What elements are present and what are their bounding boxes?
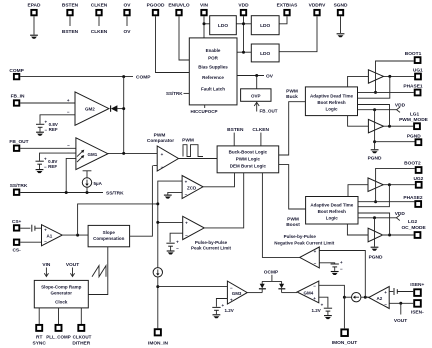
svg-text:BSTEN: BSTEN <box>62 29 79 35</box>
svg-text:RT: RT <box>36 335 42 341</box>
node IMON_OUT <box>343 296 352 329</box>
driver U6 (UG2) <box>348 178 415 207</box>
node VOUT <box>394 302 407 324</box>
svg-text:Adaptive Dead Time: Adaptive Dead Time <box>310 203 353 208</box>
svg-text:SS/TRK: SS/TRK <box>166 91 183 96</box>
svg-text:DEM Burst Logic: DEM Burst Logic <box>230 163 267 168</box>
svg-text:+: + <box>44 156 47 161</box>
pin ISEN- <box>411 300 424 315</box>
pin EN/UVLO <box>168 3 190 60</box>
svg-text:HICCUPOCP: HICCUPOCP <box>190 109 217 114</box>
svg-text:OV: OV <box>124 29 132 35</box>
svg-text:Buck-Boost Logic: Buck-Boost Logic <box>229 149 268 154</box>
svg-text:−: − <box>185 192 188 197</box>
wire driver2 supply + ground PGND <box>369 218 383 261</box>
node VIN arrow <box>42 262 51 277</box>
node HICCUPOCP <box>190 105 217 114</box>
comparator ZCD <box>158 173 235 204</box>
svg-text:COMP: COMP <box>136 75 151 81</box>
svg-text:Comparator: Comparator <box>147 138 174 144</box>
pin LG2/OC_MODE <box>401 219 426 238</box>
Slope Compensation block <box>88 166 152 247</box>
node SS/TRK at enable block <box>166 91 189 96</box>
pin LG1/PWM_MODE <box>399 111 429 129</box>
svg-text:+: + <box>321 303 324 308</box>
driver U4 (UG1) <box>348 70 415 98</box>
pin UG1 <box>413 67 423 79</box>
svg-text:Pulse-by-Pulse: Pulse-by-Pulse <box>284 234 317 239</box>
svg-text:PLL_COMP: PLL_COMP <box>46 335 71 340</box>
svg-text:Peak Current Limit: Peak Current Limit <box>191 246 232 251</box>
svg-text:Adaptive Dead Time: Adaptive Dead Time <box>310 94 353 99</box>
diode D1 (GM2 output) <box>111 105 126 112</box>
LDO U2 <box>251 16 279 35</box>
svg-text:Reference: Reference <box>202 75 224 80</box>
svg-text:CLKEN: CLKEN <box>252 127 269 133</box>
svg-text:LG1: LG1 <box>410 111 420 117</box>
pin EXTBIAS <box>277 3 299 24</box>
svg-text:DITHER: DITHER <box>72 341 90 347</box>
svg-text:IMON_OUT: IMON_OUT <box>332 340 357 346</box>
svg-text:+: + <box>67 98 70 103</box>
current source (IMON_OUT) <box>352 293 369 302</box>
wire driver1 supply <box>374 110 376 142</box>
svg-text:OVP: OVP <box>251 93 261 98</box>
svg-text:COMP: COMP <box>9 68 24 74</box>
pin RT/SYNC <box>33 308 47 347</box>
svg-text:CS+: CS+ <box>12 219 22 225</box>
pin PHASE1 <box>403 84 423 96</box>
Adaptive Dead Time block (buck) <box>305 87 357 116</box>
svg-text:Enable: Enable <box>206 48 221 53</box>
wire BOOT1 <box>374 61 414 94</box>
pin CLKOUT/DITHER <box>72 308 91 347</box>
svg-text:−: − <box>67 109 70 114</box>
svg-text:−: − <box>67 143 70 148</box>
svg-text:Boot Refresh: Boot Refresh <box>317 100 346 105</box>
op-amp A2 <box>369 287 414 309</box>
svg-text:1.2V: 1.2V <box>225 308 234 313</box>
pin OV <box>124 3 132 35</box>
transistor clamp Q2 <box>278 281 285 292</box>
svg-text:Logic: Logic <box>326 215 338 220</box>
wire A2 output <box>365 296 368 298</box>
svg-text:+: + <box>185 180 188 185</box>
svg-text:+: + <box>161 152 164 157</box>
pin ISEN+ <box>410 282 424 296</box>
Slope-Comp Ramp Generator block <box>34 247 108 308</box>
svg-text:+: + <box>44 119 47 124</box>
svg-text:−: − <box>314 261 317 266</box>
svg-text:GM4: GM4 <box>304 290 314 295</box>
svg-text:VDD: VDD <box>238 3 249 9</box>
Buck-Boost Logic block <box>217 146 279 173</box>
svg-text:VIN: VIN <box>42 262 51 268</box>
Enable/POR block <box>189 38 237 105</box>
svg-text:Fault Latch: Fault Latch <box>201 87 225 92</box>
LDO U3 <box>251 44 279 62</box>
svg-text:−: − <box>44 239 47 244</box>
svg-text:5µA: 5µA <box>94 181 103 186</box>
svg-text:Buck: Buck <box>286 94 298 100</box>
svg-text:SGND: SGND <box>334 3 348 9</box>
svg-text:OC_MODE: OC_MODE <box>401 225 426 231</box>
svg-text:Slope-Comp Ramp: Slope-Comp Ramp <box>41 285 82 290</box>
pin PHASE2 <box>403 195 423 207</box>
pin CS- <box>12 240 41 254</box>
svg-text:VIN: VIN <box>200 3 209 9</box>
pin BSTEN <box>62 3 79 35</box>
sawtooth ramp symbol <box>92 266 106 277</box>
svg-text:Slope: Slope <box>103 230 116 235</box>
svg-text:GM3: GM3 <box>232 291 242 296</box>
svg-text:BSTEN: BSTEN <box>62 3 79 9</box>
svg-text:CLKEN: CLKEN <box>91 3 108 9</box>
svg-text:LDO: LDO <box>218 23 228 29</box>
svg-text:SYNC: SYNC <box>33 341 47 347</box>
wire A1 output to current node <box>78 204 158 235</box>
svg-text:GM1: GM1 <box>88 152 98 157</box>
wire COMP vertical <box>123 77 125 154</box>
svg-text:PHASE2: PHASE2 <box>403 195 423 201</box>
svg-text:Negative Peak Current Limit: Negative Peak Current Limit <box>274 241 335 246</box>
svg-text:+: + <box>314 249 317 254</box>
svg-text:+: + <box>176 239 179 244</box>
svg-text:+: + <box>384 290 387 295</box>
svg-text:VDD: VDD <box>395 211 406 217</box>
Adaptive Dead Time block (boost) <box>306 197 358 225</box>
svg-text:−: − <box>161 165 164 170</box>
svg-text:REF: REF <box>48 164 57 169</box>
capacitor (ISEN+ input) <box>394 288 397 295</box>
pin SS/TRK <box>10 183 124 197</box>
comparator PWM <box>108 132 217 171</box>
svg-text:OV: OV <box>266 74 274 80</box>
svg-text:+: + <box>230 298 233 303</box>
node PGND (ch1) <box>368 140 415 161</box>
svg-text:−: − <box>176 246 179 251</box>
wire PWM Boost <box>279 165 306 228</box>
pin SGND <box>334 3 348 38</box>
reference 0.8V REF (GM1) <box>36 156 58 173</box>
svg-text:PWM_MODE: PWM_MODE <box>399 117 429 123</box>
op-amp GM1 <box>40 138 108 193</box>
svg-text:+: + <box>313 296 316 301</box>
op-amp GM3 <box>158 281 262 307</box>
svg-text:−: − <box>44 164 47 169</box>
svg-text:PWM: PWM <box>154 132 166 138</box>
svg-text:REF: REF <box>49 127 58 132</box>
current source 5uA <box>82 171 102 193</box>
svg-text:EN/UVLO: EN/UVLO <box>168 3 190 9</box>
svg-text:POR: POR <box>208 56 219 61</box>
svg-text:ZCD: ZCD <box>187 185 197 190</box>
driver U7 (LG2) <box>347 213 413 242</box>
svg-text:−: − <box>185 233 188 238</box>
svg-text:FB_OUT: FB_OUT <box>9 139 28 145</box>
op-amp A1 <box>42 225 89 246</box>
pin UG2 <box>413 176 423 188</box>
pin PGOOD <box>147 3 190 73</box>
comparator Pulse-by-Pulse Negative Peak Current Limit <box>262 173 365 297</box>
reference 0.8V REF (GM2) <box>36 119 58 135</box>
svg-text:Generator: Generator <box>51 290 73 295</box>
wire PWM Buck <box>279 88 306 155</box>
svg-text:Pulse-by-Pulse: Pulse-by-Pulse <box>195 240 228 245</box>
reference 1.2V (GM4) <box>312 303 333 320</box>
svg-text:PWM Logic: PWM Logic <box>236 156 261 161</box>
wire PHASE1 <box>358 91 414 93</box>
node CLKEN <box>252 127 269 146</box>
svg-text:PGND: PGND <box>368 155 382 161</box>
reference battery (peak limit) <box>166 239 179 254</box>
pin BOOT1 <box>405 51 422 63</box>
node VDD (ch2) <box>358 211 405 221</box>
pin CLKEN <box>91 3 108 35</box>
pin VDD <box>236 3 251 54</box>
node VDD (ch1) <box>358 103 406 113</box>
svg-text:−: − <box>340 266 343 271</box>
svg-text:VOUT: VOUT <box>66 262 79 268</box>
node BSTEN <box>227 127 244 146</box>
driver U5 (LG1) <box>348 105 414 133</box>
current source (IMON_IN) <box>153 268 162 329</box>
LDO U1 <box>210 16 237 35</box>
pin PGND <box>407 133 421 145</box>
svg-text:1.2V: 1.2V <box>312 308 321 313</box>
pin COMP <box>9 68 151 81</box>
transistor clamp Q1 <box>259 281 266 292</box>
svg-text:FB_OUT: FB_OUT <box>260 109 278 114</box>
node OCMP clamp <box>262 269 281 281</box>
svg-text:IMON_IN: IMON_IN <box>148 340 169 346</box>
svg-text:LDO: LDO <box>260 51 270 57</box>
svg-text:PGOOD: PGOOD <box>147 3 165 9</box>
reference battery (neg peak limit) <box>331 260 343 275</box>
svg-text:PGND: PGND <box>369 254 383 260</box>
pin FB_IN <box>11 94 75 106</box>
node OV <box>237 74 274 89</box>
svg-text:PWM: PWM <box>286 88 298 94</box>
svg-text:CS-: CS- <box>12 247 21 253</box>
pin IMON_OUT <box>332 329 357 346</box>
svg-text:VOUT: VOUT <box>394 318 407 324</box>
svg-text:SS/TRK: SS/TRK <box>10 183 28 189</box>
wire BOOT2 <box>374 168 415 203</box>
svg-text:−: − <box>230 285 233 290</box>
svg-text:SS/TRK: SS/TRK <box>106 191 124 197</box>
svg-text:LG2: LG2 <box>408 219 418 225</box>
svg-text:−: − <box>313 284 316 289</box>
svg-text:ISEN+: ISEN+ <box>410 282 424 288</box>
svg-text:FB_IN: FB_IN <box>11 94 25 100</box>
node VOUT arrow <box>66 262 79 277</box>
svg-text:PWM: PWM <box>287 216 299 222</box>
pin EPAD <box>28 3 42 39</box>
svg-text:EPAD: EPAD <box>28 3 42 9</box>
svg-text:A1: A1 <box>47 233 53 238</box>
svg-text:GM2: GM2 <box>85 106 95 111</box>
capacitor (CS+ input) <box>32 225 42 232</box>
svg-text:CLKEN: CLKEN <box>91 29 108 35</box>
pin VIN <box>200 3 210 38</box>
svg-text:VDD: VDD <box>395 103 406 109</box>
svg-text:Bias Supplies: Bias Supplies <box>198 65 228 70</box>
svg-text:+: + <box>44 228 47 233</box>
svg-text:PWM: PWM <box>182 138 194 144</box>
svg-text:BOOT1: BOOT1 <box>405 51 422 57</box>
pin VDDRV <box>279 3 326 52</box>
OVP block <box>241 89 271 102</box>
svg-text:A2: A2 <box>377 296 383 301</box>
pin FB_OUT <box>9 139 76 151</box>
comparator Pulse-by-Pulse Peak Current Limit <box>158 173 244 251</box>
pin PLL_COMP <box>46 308 71 340</box>
svg-text:Boot Refresh: Boot Refresh <box>318 209 347 214</box>
svg-text:Compensation: Compensation <box>93 236 125 241</box>
reference 1.2V (GM3) <box>212 303 233 318</box>
svg-text:UG1: UG1 <box>413 67 423 73</box>
svg-text:BSTEN: BSTEN <box>227 127 244 133</box>
pin BOOT2 <box>404 161 421 173</box>
op-amp GM2 <box>40 92 109 125</box>
PWM waveform <box>182 138 203 157</box>
wire IMON sense vertical <box>156 202 159 267</box>
pin CS+ <box>12 219 31 231</box>
svg-text:ISEN-: ISEN- <box>411 309 424 315</box>
pin IMON_IN <box>148 329 169 346</box>
svg-text:+: + <box>340 260 343 265</box>
svg-text:OCMP: OCMP <box>264 269 279 275</box>
svg-text:VDDRV: VDDRV <box>309 3 327 9</box>
svg-text:LDO: LDO <box>260 23 270 29</box>
svg-text:Boost: Boost <box>286 222 300 228</box>
svg-text:OV: OV <box>124 3 132 9</box>
svg-text:CLKOUT: CLKOUT <box>73 335 92 340</box>
op-amp GM4 <box>282 281 345 308</box>
wire PHASE2 <box>358 201 414 203</box>
svg-text:Clock: Clock <box>55 300 68 305</box>
svg-text:BOOT2: BOOT2 <box>404 161 421 167</box>
svg-text:+: + <box>185 221 188 226</box>
svg-text:Logic: Logic <box>326 106 338 111</box>
svg-text:−: − <box>44 127 47 132</box>
svg-text:EXTBIAS: EXTBIAS <box>277 3 299 9</box>
node FB_OUT arrow <box>254 102 278 113</box>
svg-text:−: − <box>384 302 387 307</box>
